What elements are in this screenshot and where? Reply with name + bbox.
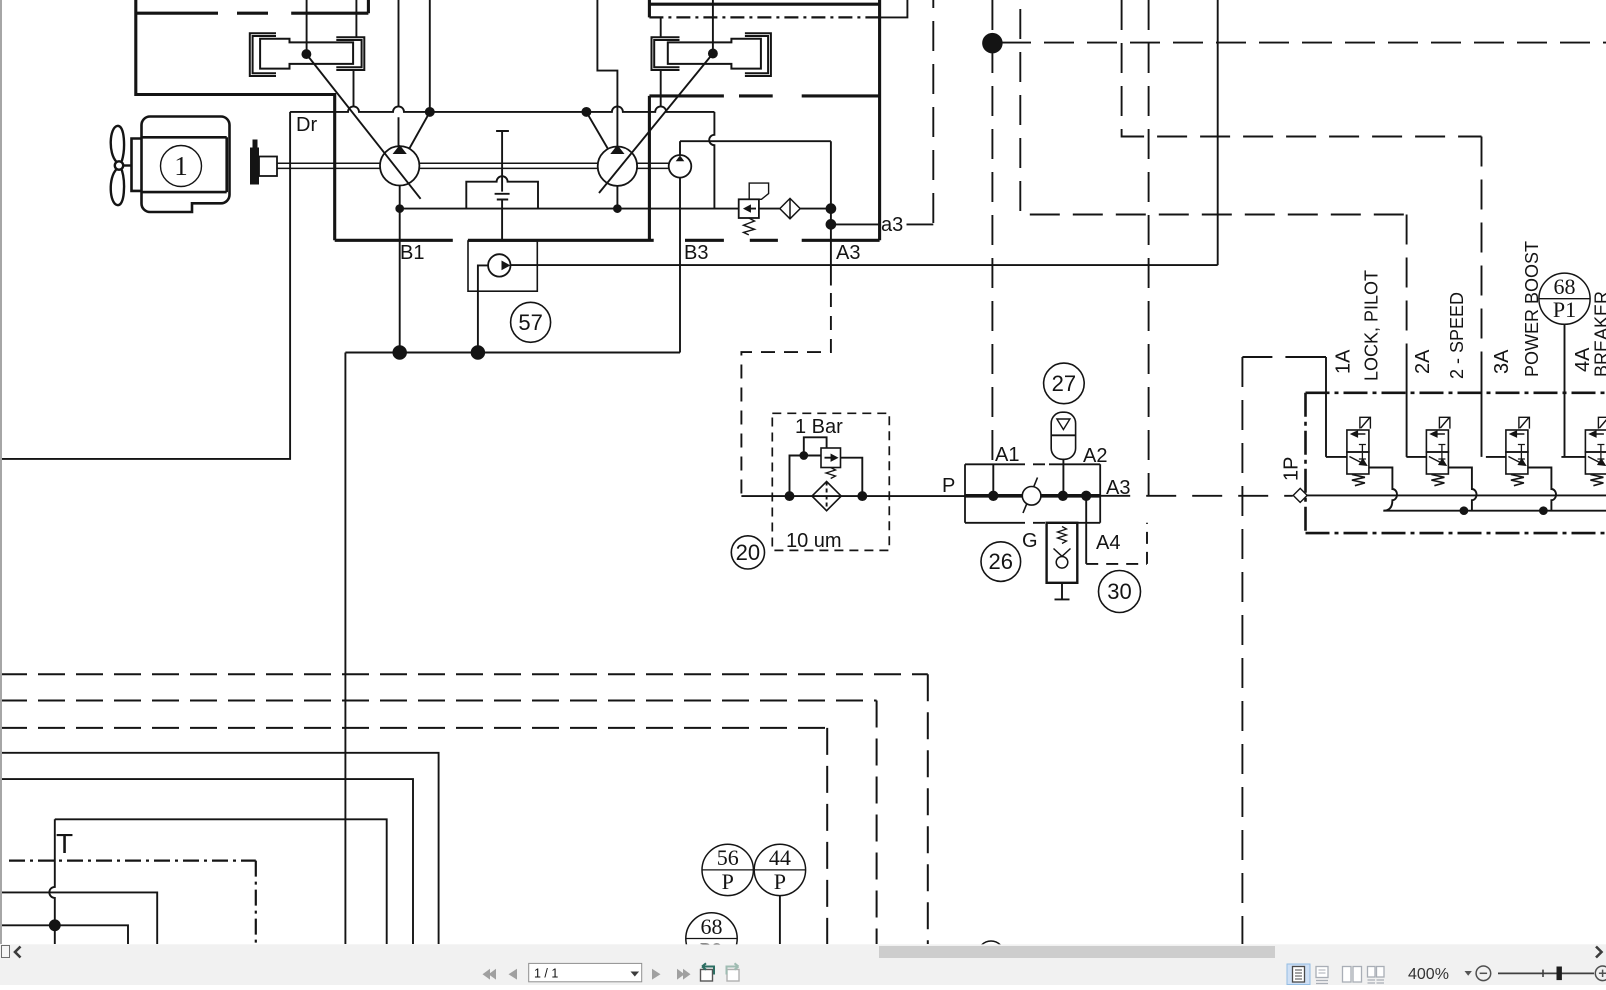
layout icons xyxy=(1287,964,1310,985)
pilot operated check 30 xyxy=(1047,523,1078,583)
svg-text:10 um: 10 um xyxy=(786,530,842,552)
svg-text:1 / 1: 1 / 1 xyxy=(534,967,558,981)
svg-text:A2: A2 xyxy=(1083,445,1107,467)
pilot junction node xyxy=(983,34,1002,53)
P1 feed from servo xyxy=(398,0,400,146)
svg-text:400%: 400% xyxy=(1408,966,1449,983)
label circle 26 xyxy=(981,542,1021,582)
label circle 30 xyxy=(1099,571,1141,613)
case drain line with hops xyxy=(290,106,714,112)
pilot line to valve 3A (dashed) xyxy=(1122,0,1482,360)
SA1 control linkage to pump P1 xyxy=(306,54,420,199)
solenoid valve 4A xyxy=(1561,417,1606,485)
svg-text:A1: A1 xyxy=(995,444,1019,466)
return line 4 xyxy=(0,753,439,944)
P1 bottom port node xyxy=(396,205,403,212)
label circle 57 xyxy=(511,302,551,342)
svg-text:LOCK, PILOT: LOCK, PILOT xyxy=(1362,270,1382,381)
accumulator 27 xyxy=(1051,412,1075,459)
charge/case line y208 xyxy=(400,208,739,210)
loop line y181 with hop over gearbox xyxy=(466,176,538,208)
svg-text:1: 1 xyxy=(174,151,188,181)
charge pump box xyxy=(468,241,537,291)
return line 7 xyxy=(0,925,128,944)
zoom slider xyxy=(1498,972,1594,974)
drive shaft double line xyxy=(277,163,669,168)
SA2 pivot node xyxy=(709,50,717,58)
P1 link to drain node xyxy=(409,112,430,149)
gauge 68/P1 line to valve 4A xyxy=(1564,324,1566,457)
A4 port bracket (dashed) xyxy=(1085,496,1087,564)
boundary pump 2 section (thick) xyxy=(136,0,880,240)
P2 bottom port node xyxy=(614,205,621,212)
servo actuator SA2 left bracket xyxy=(652,37,680,70)
svg-text:POWER BOOST: POWER BOOST xyxy=(1522,241,1542,377)
SA1 pilot lines from top xyxy=(307,0,357,107)
P2 link to drain node xyxy=(586,112,607,149)
tank return dashed line 3 xyxy=(0,728,827,944)
engine fan xyxy=(111,126,132,205)
next view icon (disabled) xyxy=(727,970,739,982)
SA2 control linkage to pump P2 xyxy=(599,54,713,194)
pilot line to 4A (dashed right) xyxy=(1001,42,1606,44)
svg-text:B3: B3 xyxy=(684,242,708,264)
gearbox / PTO shaft tap xyxy=(495,131,510,240)
chassis chain line xyxy=(9,861,256,944)
svg-text:20: 20 xyxy=(736,540,760,565)
filter element diamond xyxy=(812,482,841,511)
zoom out xyxy=(1476,966,1491,981)
vertical from drain line corner to y208 xyxy=(709,112,714,209)
boundary chain line top (dash-dot) xyxy=(649,16,879,18)
long return line down xyxy=(344,353,346,945)
P3 outlet up xyxy=(679,141,681,155)
previous view icon xyxy=(701,970,713,982)
SA2 pilot lines xyxy=(661,0,713,107)
svg-text:P1: P1 xyxy=(1553,297,1576,322)
solenoid valve 1A xyxy=(1326,417,1397,510)
charge pump circle xyxy=(488,254,510,276)
port 1P diamond xyxy=(1293,488,1307,502)
manifold border (chain) xyxy=(1306,393,1606,533)
pilot line to valve 1A (dashed) xyxy=(1242,357,1293,944)
filter feed line xyxy=(741,495,965,497)
pilot line to A3 port (dashed) xyxy=(1148,0,1150,496)
svg-text:2 - SPEED: 2 - SPEED xyxy=(1447,292,1467,379)
svg-text:BREAKER: BREAKER xyxy=(1592,291,1606,377)
label circle 27 xyxy=(1044,363,1085,404)
servo actuator SA2 right bracket xyxy=(745,33,771,76)
svg-text:P: P xyxy=(722,869,734,894)
P gallery (bold) xyxy=(965,494,1100,498)
svg-text:57: 57 xyxy=(518,310,542,335)
horizontal scrollbar xyxy=(879,946,1275,958)
gauge 44/P drop line xyxy=(779,896,781,944)
A3 rail vertical xyxy=(830,141,832,285)
viewer left panel edge xyxy=(0,0,2,944)
svg-text:a3: a3 xyxy=(881,214,903,236)
boundary pump assembly left (thick) xyxy=(136,0,880,240)
pilot line a3 up (dashed) xyxy=(932,0,934,223)
return line 5 xyxy=(0,779,413,944)
SA2 feed line from top xyxy=(597,0,617,146)
engine label circle 1 xyxy=(161,146,202,187)
tank return dashed line 1 xyxy=(0,674,928,944)
servo actuator SA1 left bracket xyxy=(250,33,276,76)
A3 to filter pilot (dashed) xyxy=(741,293,831,496)
pilot line to valve 2A (dashed) xyxy=(1020,9,1406,360)
servo actuator SA1 piston and rod xyxy=(260,39,353,69)
check manifold box xyxy=(965,464,1100,523)
shaft coupling xyxy=(250,148,259,185)
svg-text:2A: 2A xyxy=(1412,349,1434,374)
small label circle (clipped) xyxy=(978,941,1004,967)
solenoid valve 3A xyxy=(1486,417,1556,510)
nodes on A3 rail xyxy=(827,204,836,213)
pilot line down to A1 (dashed) xyxy=(991,0,993,464)
svg-text:B1: B1 xyxy=(400,242,424,264)
svg-text:A3: A3 xyxy=(836,242,860,264)
svg-text:68: 68 xyxy=(1554,274,1576,299)
filter bypass relief valve xyxy=(821,448,841,468)
bypass wiring xyxy=(790,437,863,496)
charge output line to right xyxy=(511,0,1218,265)
svg-text:P: P xyxy=(942,475,955,497)
charge pump suction drop xyxy=(478,265,488,352)
page number box xyxy=(529,963,642,981)
pump P1 (variable piston pump) xyxy=(380,146,419,185)
filter/orifice diamond xyxy=(780,198,800,218)
svg-text:G: G xyxy=(1022,530,1038,552)
svg-text:1P: 1P xyxy=(1281,457,1303,481)
svg-text:26: 26 xyxy=(989,549,1013,574)
svg-text:1A: 1A xyxy=(1333,349,1355,374)
svg-text:P: P xyxy=(774,869,786,894)
node feed vertical xyxy=(429,0,431,108)
return gallery xyxy=(1383,510,1606,512)
svg-text:T: T xyxy=(56,828,73,859)
return line 6 xyxy=(0,892,157,944)
Dr drain line xyxy=(0,112,290,459)
servo actuator SA2 piston and rod xyxy=(668,39,761,69)
svg-text:1 Bar: 1 Bar xyxy=(795,416,843,438)
svg-text:3A: 3A xyxy=(1491,349,1513,374)
zoom in xyxy=(1595,966,1606,981)
page nav: next page xyxy=(652,969,691,980)
pump P2 (variable piston pump) xyxy=(598,147,637,186)
svg-text:27: 27 xyxy=(1052,371,1076,396)
label circle 20 xyxy=(731,536,764,569)
SA1 pivot node xyxy=(302,50,310,58)
T port line xyxy=(55,819,387,944)
check valve symbol xyxy=(1023,478,1038,514)
filter assembly box (dashed) xyxy=(772,413,889,550)
engine 1 body xyxy=(132,117,230,213)
A1 drop inside box xyxy=(992,464,994,496)
svg-text:30: 30 xyxy=(1107,579,1131,604)
svg-text:A4: A4 xyxy=(1096,532,1120,554)
RV spring xyxy=(744,218,755,235)
servo actuator SA1 right bracket xyxy=(336,37,364,70)
tank rail y352 xyxy=(345,352,680,354)
node on drain line (P2 servo) xyxy=(582,108,590,116)
gauge 56/P xyxy=(702,844,753,895)
solenoid valve 2A xyxy=(1406,417,1476,510)
svg-text:68: 68 xyxy=(701,914,723,939)
pilot gallery P (with hops) xyxy=(1307,494,1606,496)
svg-text:44: 44 xyxy=(769,845,791,870)
B1 rail xyxy=(399,186,401,353)
tank return dashed line 2 xyxy=(0,701,877,945)
wire a3 xyxy=(831,223,933,225)
gauge 68/P2 (clipped) xyxy=(686,913,737,964)
page nav: first page xyxy=(483,969,518,980)
T drop with hop xyxy=(49,819,55,944)
relief valve RV (pump 2 loop) xyxy=(739,199,759,218)
node on drain line (P1 servo) xyxy=(426,108,434,116)
svg-text:56: 56 xyxy=(717,845,739,870)
gauge 68/P1 xyxy=(1539,273,1590,324)
gear pump P3 xyxy=(669,155,692,178)
svg-text:Dr: Dr xyxy=(296,114,317,136)
gauge 44/P xyxy=(754,844,805,895)
P3 suction line down to B3 rail xyxy=(679,178,681,353)
P line to 1P (dashed) xyxy=(1100,495,1293,497)
